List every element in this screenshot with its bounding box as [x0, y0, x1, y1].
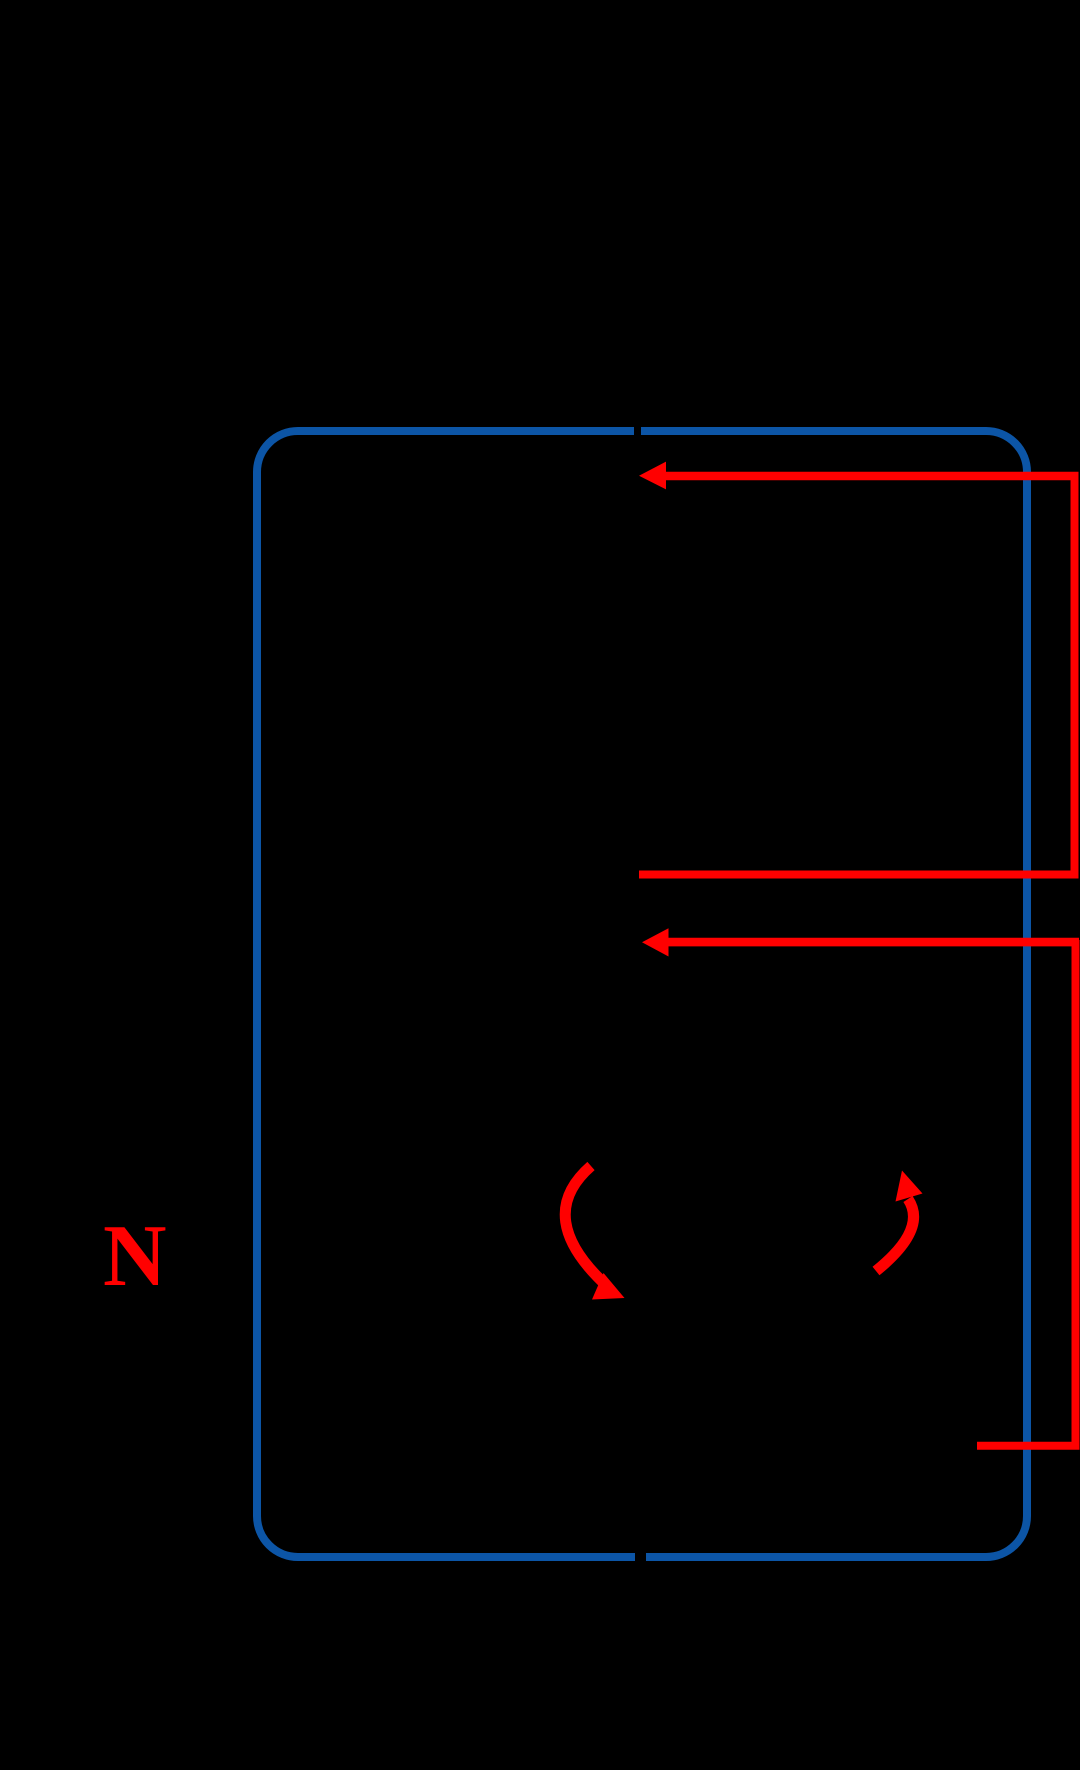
- axis tick top (black, crosses top wire): [634, 417, 641, 444]
- rotation arrow left head: [592, 1273, 625, 1300]
- current arrow 1 shaft: [663, 472, 1079, 481]
- wire loop (blue rounded rectangle): [257, 431, 1027, 1557]
- current arrow 2 shaft: [665, 938, 1079, 947]
- rotation arrow right head: [896, 1171, 923, 1202]
- rotation arrow right (arc): [876, 1199, 914, 1271]
- current arrow 1 head: [639, 462, 666, 490]
- axis tick bottom (black, crosses bottom wire): [635, 1543, 646, 1571]
- current arrow 2 head: [642, 928, 669, 956]
- svg-text:N: N: [103, 1208, 167, 1305]
- current path 1 connector (right and bottom sides): [639, 474, 1075, 875]
- current path 2 connector (right and bottom sides): [977, 940, 1076, 1446]
- rotation arrow left (arc): [565, 1166, 608, 1287]
